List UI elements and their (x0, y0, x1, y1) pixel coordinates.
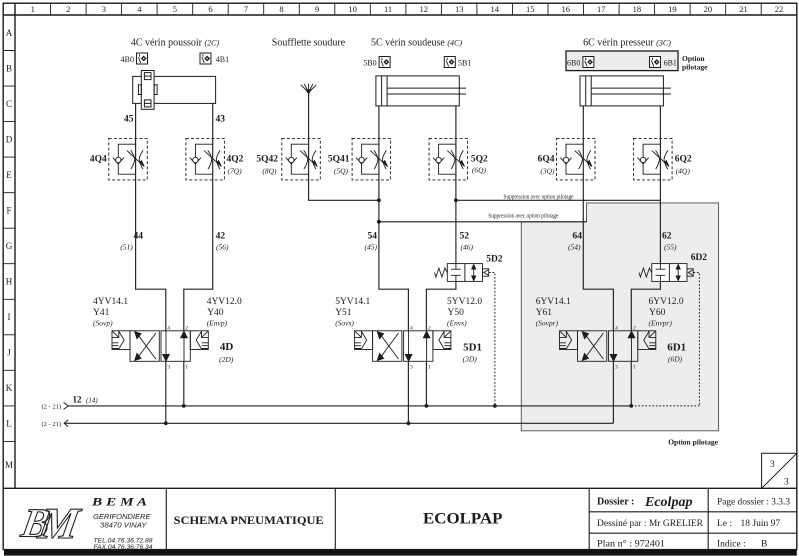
svg-text:2: 2 (633, 325, 636, 331)
junction return line / 4D port3 (164, 421, 168, 425)
soufflette nozzle (301, 84, 317, 94)
svg-text:C: C (6, 99, 12, 109)
svg-text:4B0: 4B0 (121, 55, 134, 64)
svg-text:(45): (45) (365, 242, 378, 251)
wire 64 cylinder 6C through 6Q4 to 6D1 port4 (583, 106, 613, 331)
svg-text:pilotage: pilotage (682, 63, 708, 72)
svg-text:5Q2: 5Q2 (471, 155, 488, 165)
svg-text:Y40: Y40 (207, 308, 224, 318)
svg-text:4: 4 (167, 325, 170, 331)
svg-text:Indice :: Indice : (717, 540, 746, 550)
svg-text:62: 62 (662, 232, 672, 242)
bottom black bar (4, 550, 797, 556)
wire 62 6D2 to 6D1 port2 (631, 281, 660, 330)
svg-text:(3Q): (3Q) (540, 167, 555, 176)
svg-text:Ecolpap: Ecolpap (644, 495, 692, 510)
sensor 5B1 (444, 57, 455, 68)
junction supply line / 6D1 port1 (629, 404, 633, 408)
svg-text:45: 45 (124, 115, 134, 125)
svg-text:4Q2: 4Q2 (227, 155, 244, 165)
junction suppression line 2 / wire 54 (377, 220, 381, 224)
svg-text:(Envs): (Envs) (447, 319, 467, 328)
svg-text:Dessiné par : Mr GRELIER: Dessiné par : Mr GRELIER (597, 519, 704, 529)
svg-text:(3D): (3D) (463, 355, 478, 364)
svg-text:44: 44 (134, 232, 144, 242)
wire 6D1 port3 to return line (612, 361, 614, 423)
pilot line 6D2 (dashed) (631, 273, 699, 406)
wire 5D1 port1 to supply line (425, 361, 427, 406)
svg-text:B: B (6, 63, 12, 73)
svg-text:13: 13 (455, 4, 464, 14)
directional valve 5D1 (355, 331, 451, 362)
title block (166, 488, 797, 549)
sensor 4B0 (137, 53, 148, 64)
svg-text:43: 43 (216, 115, 226, 125)
suppression line 1 (456, 199, 661, 201)
svg-text:(Sovp): (Sovp) (93, 319, 113, 328)
svg-text:H: H (6, 277, 13, 287)
svg-text:6B1: 6B1 (664, 59, 677, 68)
svg-text:1: 1 (428, 365, 431, 371)
svg-text:20: 20 (704, 4, 713, 14)
wire 54 cylinder 5C through 5Q41 to 5D1 port4 (379, 106, 409, 331)
svg-text:4C vérin poussoir (2C): 4C vérin poussoir (2C) (131, 38, 220, 49)
WIRES GROUP 6 (583, 106, 660, 423)
svg-text:9: 9 (315, 4, 319, 14)
cylinder 4C body (133, 71, 216, 110)
directional valve 6D1 (560, 331, 656, 362)
svg-text:12: 12 (73, 395, 83, 405)
pilot valve 6D2 (639, 264, 693, 282)
svg-text:16: 16 (562, 4, 571, 14)
svg-text:(4Q): (4Q) (676, 167, 691, 176)
svg-text:6Q4: 6Q4 (538, 155, 555, 165)
svg-text:Y50: Y50 (448, 308, 465, 318)
svg-text:15: 15 (526, 4, 535, 14)
svg-text:(6D): (6D) (668, 355, 683, 364)
svg-text:5C vérin soudeuse (4C): 5C vérin soudeuse (4C) (371, 38, 462, 49)
svg-text:(6Q): (6Q) (472, 166, 487, 175)
svg-text:6C vérin presseur (3C): 6C vérin presseur (3C) (583, 38, 671, 49)
svg-text:6Q2: 6Q2 (675, 155, 692, 165)
svg-text:18 Juin 97: 18 Juin 97 (741, 519, 781, 529)
svg-text:L: L (6, 419, 12, 429)
svg-text:Option pilotage: Option pilotage (668, 438, 718, 447)
svg-text:B E M A: B E M A (91, 497, 148, 509)
svg-text:(8Q): (8Q) (262, 167, 277, 176)
svg-text:1: 1 (31, 4, 35, 14)
svg-text:6YV14.1: 6YV14.1 (536, 297, 571, 307)
svg-text:4Q4: 4Q4 (90, 155, 107, 165)
svg-text:F: F (6, 206, 11, 216)
svg-text:5B0: 5B0 (363, 59, 376, 68)
svg-text:(5Q): (5Q) (334, 167, 349, 176)
svg-text:(46): (46) (461, 242, 474, 251)
flow valve 4Q2 (186, 138, 225, 180)
svg-text:2: 2 (66, 4, 70, 14)
cylinder 5C (376, 76, 459, 106)
svg-text:22: 22 (775, 4, 784, 14)
svg-text:J: J (7, 348, 11, 358)
sensor 4B1 (200, 53, 211, 64)
svg-text:4YV12.0: 4YV12.0 (207, 297, 242, 307)
svg-text:(Envp): (Envp) (207, 319, 228, 328)
svg-text:Suppression avec option pilota: Suppression avec option pilotage (504, 194, 574, 200)
BEMA logo (17, 498, 84, 548)
wire 52 5D2 to 5D1 port2 (426, 281, 456, 330)
svg-text:4: 4 (615, 325, 618, 331)
junction supply line / 4D port1 (182, 404, 186, 408)
wire soufflette through 5Q42 to node 54 (309, 92, 379, 200)
svg-text:52: 52 (460, 232, 470, 242)
svg-text:6D1: 6D1 (667, 342, 686, 354)
svg-text:7: 7 (244, 4, 248, 14)
svg-text:ECOLPAP: ECOLPAP (423, 510, 503, 527)
svg-text:(Sovs): (Sovs) (335, 319, 354, 328)
svg-text:17: 17 (597, 4, 606, 14)
svg-text:4YV14.1: 4YV14.1 (93, 297, 128, 307)
svg-text:19: 19 (668, 4, 677, 14)
cylinder 6C (580, 76, 663, 106)
sensor bar 6B (option pilotage) (566, 51, 678, 71)
pilot line 5D2 (dashed) (489, 273, 495, 406)
junction return line / 5D1 port3 (407, 421, 411, 425)
svg-text:(7Q): (7Q) (228, 167, 243, 176)
svg-text:3: 3 (770, 460, 775, 470)
svg-text:Dossier :: Dossier : (597, 497, 634, 508)
SECTION TITLES (131, 38, 671, 49)
svg-text:5: 5 (173, 4, 177, 14)
wire 45/44 cylinder through 4Q4 to 4D port4 (136, 103, 166, 330)
svg-text:3: 3 (784, 478, 789, 488)
svg-text:5YV12.0: 5YV12.0 (447, 297, 482, 307)
svg-text:(55): (55) (664, 242, 677, 251)
flow valve 5Q2 (429, 138, 468, 180)
svg-text:A: A (6, 28, 13, 38)
svg-text:6D2: 6D2 (691, 253, 708, 263)
svg-text:18: 18 (633, 4, 642, 14)
svg-text:21: 21 (739, 4, 748, 14)
page index triangle 3/3 (762, 453, 797, 488)
wire 4D port3 to return line (165, 361, 167, 423)
svg-text:(Sovpr): (Sovpr) (536, 319, 559, 328)
svg-text:5D2: 5D2 (486, 255, 503, 265)
flow valve 5Q42 (282, 138, 321, 180)
svg-text:42: 42 (216, 232, 226, 242)
svg-text:14: 14 (490, 4, 499, 14)
svg-text:1: 1 (185, 365, 188, 371)
wire 52 cylinder 5C through 5Q2 to 5D2 (455, 106, 457, 264)
svg-text:10: 10 (348, 4, 357, 14)
flow valve 6Q2 (634, 138, 673, 180)
junction suppression line 1 / wire 52 (454, 198, 458, 202)
svg-text:6: 6 (208, 4, 212, 14)
svg-text:1: 1 (633, 365, 636, 371)
svg-text:B: B (761, 540, 767, 550)
svg-text:3: 3 (615, 365, 618, 371)
svg-text:(56): (56) (216, 242, 229, 251)
svg-text:Page dossier : 3.3.3: Page dossier : 3.3.3 (717, 498, 790, 508)
wire 4D port1 to supply line (183, 361, 185, 406)
svg-text:64: 64 (573, 232, 583, 242)
svg-text:E: E (6, 170, 12, 180)
svg-text:5Q42: 5Q42 (256, 155, 278, 165)
wire 6D1 port1 to supply line (630, 361, 632, 406)
option pilotage shaded region (521, 203, 718, 431)
svg-text:Y60: Y60 (649, 308, 666, 318)
svg-text:4D: 4D (220, 341, 234, 353)
svg-text:D: D (6, 134, 13, 144)
svg-text:K: K (6, 383, 13, 393)
svg-text:Suppression avec option pilota: Suppression avec option pilotage (488, 213, 558, 219)
svg-text:5B1: 5B1 (458, 59, 471, 68)
svg-text:5Q41: 5Q41 (328, 155, 350, 165)
svg-text:Soufflette soudure: Soufflette soudure (272, 38, 346, 49)
pilot valve 5D2 (435, 264, 489, 282)
flow valve 4Q4 (109, 138, 148, 180)
svg-text:(2 - 21): (2 - 21) (42, 421, 62, 428)
svg-text:Le :: Le : (717, 519, 732, 529)
svg-text:3: 3 (410, 365, 413, 371)
svg-text:(14): (14) (86, 397, 98, 405)
svg-text:Y41: Y41 (93, 308, 110, 318)
svg-text:3: 3 (102, 4, 106, 14)
svg-text:(54): (54) (568, 242, 581, 251)
svg-text:2: 2 (428, 325, 431, 331)
svg-text:5D1: 5D1 (463, 342, 482, 354)
return line (64, 422, 613, 424)
svg-text:(2D): (2D) (219, 355, 234, 364)
svg-text:G: G (6, 241, 13, 251)
flow valve 6Q4 (557, 138, 596, 180)
wire 5D1 port3 to return line (407, 361, 409, 423)
wire 43/42 cylinder through 4Q2 to 4D port2 (184, 103, 213, 330)
junction supply line / 5D1 port1 (425, 404, 429, 408)
svg-text:8: 8 (279, 4, 283, 14)
junction supply line / 5D2 pilot (493, 404, 497, 408)
wire 62 cylinder 6C through 6Q2 to 6D2 (659, 106, 661, 264)
svg-text:38470 VINAY: 38470 VINAY (100, 520, 147, 529)
sensor 5B0 (379, 57, 390, 68)
svg-text:3: 3 (167, 365, 170, 371)
svg-text:12: 12 (419, 4, 428, 14)
svg-text:4: 4 (137, 4, 142, 14)
supply line 12 (69, 405, 632, 407)
svg-text:SCHEMA PNEUMATIQUE: SCHEMA PNEUMATIQUE (174, 515, 324, 527)
svg-text:(51): (51) (120, 242, 133, 251)
svg-text:2: 2 (185, 325, 188, 331)
svg-text:4B1: 4B1 (216, 55, 229, 64)
directional valve 4D (112, 331, 208, 362)
svg-text:(2 - 21): (2 - 21) (42, 403, 62, 410)
svg-text:11: 11 (384, 4, 392, 14)
svg-text:Y51: Y51 (335, 308, 352, 318)
flow valve 5Q41 (352, 138, 391, 180)
svg-text:5YV14.1: 5YV14.1 (335, 297, 370, 307)
svg-text:I: I (8, 312, 11, 322)
svg-text:Plan n° : 972401: Plan n° : 972401 (597, 539, 665, 550)
WIRES GROUP 4 (136, 103, 213, 423)
svg-text:Y61: Y61 (536, 308, 553, 318)
svg-text:M: M (5, 460, 13, 470)
WIRES GROUP 5 (309, 92, 456, 423)
svg-text:6YV12.0: 6YV12.0 (649, 297, 684, 307)
svg-text:54: 54 (368, 232, 378, 242)
svg-text:(Envpr): (Envpr) (649, 319, 673, 328)
sensor 6B0 (583, 57, 594, 68)
suppression line 2 (379, 221, 587, 223)
svg-text:4: 4 (410, 325, 413, 331)
sensor 6B1 (650, 57, 661, 68)
svg-text:6B0: 6B0 (567, 59, 580, 68)
junction soufflette line / wire 54 (377, 198, 381, 202)
